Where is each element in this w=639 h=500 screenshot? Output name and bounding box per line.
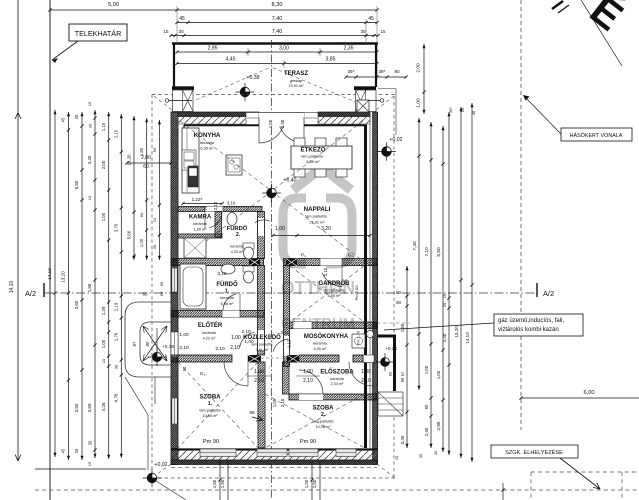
dimension 6,00 to hasokert line — [521, 397, 639, 399]
interior wall kamra right vertical — [215, 212, 222, 238]
roof hip dashed diagonals at corners — [154, 96, 172, 110]
svg-text:10: 10 — [442, 293, 447, 298]
terrace dashed diagonals — [173, 67, 271, 110]
house outer wall left — [171, 112, 178, 465]
svg-text:gáz üzemű,inducíós, fali,: gáz üzemű,inducíós, fali, — [498, 318, 564, 324]
gardrob door gap and arc — [320, 259, 342, 266]
interior wall kozlekedo right vertical H — [284, 266, 290, 367]
svg-text:TERASZ: TERASZ — [284, 71, 308, 77]
svg-text:45: 45 — [74, 114, 79, 119]
svg-text:23,91 m²: 23,91 m² — [289, 84, 305, 88]
svg-text:10: 10 — [87, 195, 92, 200]
bathtub furdo1 — [180, 264, 206, 309]
svg-text:21,31 m²: 21,31 m² — [309, 220, 325, 225]
vertical extension lines above house — [176, 6, 178, 44]
svg-text:2.: 2. — [321, 412, 326, 418]
svg-text:2,95: 2,95 — [207, 46, 217, 52]
top dimension row 2: 45 7,40 45 — [177, 22, 377, 24]
svg-text:GARDRÓB: GARDRÓB — [319, 279, 351, 287]
svg-text:6,00: 6,00 — [584, 390, 595, 396]
svg-text:45: 45 — [179, 16, 185, 22]
top dimension row 6: 39-5 39-5 80 — [346, 76, 406, 78]
svg-text:45: 45 — [74, 448, 79, 453]
house outer wall right: crosshatch outer — [373, 112, 378, 465]
duct blocks flanking corridor opening — [248, 355, 261, 363]
right-top vertical dimension 2,00 / 1,00 — [423, 44, 425, 114]
svg-text:kerámia: kerámia — [313, 342, 327, 346]
svg-text:80: 80 — [394, 69, 400, 74]
eave corner solid line right — [378, 88, 396, 90]
svg-text:3,40: 3,40 — [87, 155, 92, 164]
svg-text:1,50: 1,50 — [312, 479, 317, 488]
interior wall furdo2-furdo1 horizontal thick — [171, 259, 264, 266]
svg-text:kerámia: kerámia — [193, 222, 207, 226]
entry door gap right wall area — [363, 355, 374, 363]
svg-text:+0,02: +0,02 — [154, 462, 167, 468]
rain downpipe left — [165, 99, 169, 103]
svg-text:7,40: 7,40 — [412, 241, 418, 251]
furdo2 door gap in spine — [258, 218, 264, 236]
svg-text:15: 15 — [460, 107, 465, 112]
svg-text:15: 15 — [380, 29, 386, 34]
svg-text:kerámia: kerámia — [202, 331, 216, 335]
kozlekedo-eloter door gap in spine lower — [258, 330, 264, 350]
top dimension row 1: 5,00 / 8,30 — [50, 9, 377, 11]
svg-text:lam.parketta: lam.parketta — [324, 289, 346, 293]
svg-text:1,80: 1,80 — [87, 283, 92, 292]
svg-text:15: 15 — [87, 461, 92, 466]
svg-text:A/2: A/2 — [25, 289, 36, 298]
gaz boiler note box — [494, 314, 583, 336]
svg-text:4,76: 4,76 — [114, 393, 119, 402]
entrance porch outer rounded outline — [125, 302, 172, 377]
shower tray with X — [184, 238, 206, 258]
svg-text:60: 60 — [159, 281, 164, 286]
svg-text:1,60 m²: 1,60 m² — [194, 228, 208, 232]
arrow from szgk box — [560, 458, 600, 489]
interior wall kamra bottom — [178, 234, 222, 238]
left cluster vertical dimension lines — [54, 110, 56, 457]
svg-text:G₁.: G₁. — [348, 253, 354, 258]
kitchen island stove — [226, 155, 242, 175]
svg-text:2.: 2. — [236, 232, 241, 238]
svg-text:2,00: 2,00 — [141, 155, 151, 161]
svg-text:1,00: 1,00 — [231, 335, 241, 341]
svg-text:5,96 m²: 5,96 m² — [221, 302, 235, 306]
svg-text:lam.parketta: lam.parketta — [305, 214, 327, 219]
duct block in wall — [249, 259, 260, 267]
svg-text:4,45: 4,45 — [225, 57, 235, 63]
svg-text:14,10: 14,10 — [9, 281, 15, 294]
slab edge dashed under bottom wall — [171, 466, 377, 468]
door entrance left wall at eloter — [171, 332, 178, 357]
svg-text:87: 87 — [132, 341, 137, 346]
svg-text:1,00: 1,00 — [254, 369, 264, 375]
svg-text:1,70: 1,70 — [114, 332, 119, 341]
svg-text:5,00: 5,00 — [127, 230, 132, 239]
interior wall nappali-gardrob horizontal — [284, 259, 378, 266]
toilet furdo2 — [243, 243, 254, 249]
svg-text:2,40: 2,40 — [424, 427, 429, 436]
szoba1 door arc — [224, 362, 248, 386]
terrace left pillar box — [173, 90, 194, 112]
svg-text:+0,38: +0,38 — [246, 75, 259, 81]
svg-text:13,20: 13,20 — [61, 271, 66, 283]
exterior entry steps — [378, 392, 403, 416]
far-left dimension line 14,10 — [17, 113, 19, 301]
svg-text:Pm 1,70: Pm 1,70 — [357, 331, 361, 345]
svg-text:90: 90 — [424, 404, 429, 409]
leader line from boiler box to mosokonyha — [384, 323, 494, 330]
svg-text:8,35 m²: 8,35 m² — [306, 159, 320, 164]
level marker +0,40 centre — [267, 188, 277, 198]
wall between szoba1 and szoba2 — [258, 362, 265, 448]
svg-text:15: 15 — [163, 29, 169, 34]
svg-text:1.: 1. — [225, 289, 230, 295]
svg-text:1,00: 1,00 — [139, 238, 144, 247]
svg-text:+0,38: +0,38 — [162, 344, 174, 350]
SZGK ELHELYEZESE label box — [491, 445, 578, 458]
svg-text:30: 30 — [88, 123, 93, 128]
svg-text:2,34 m²: 2,34 m² — [331, 382, 345, 386]
svg-text:3,00: 3,00 — [279, 46, 289, 52]
svg-text:95: 95 — [249, 410, 255, 416]
svg-text:87: 87 — [400, 371, 405, 376]
top dimension row 3: 15 30 7,40 30 15 — [171, 35, 378, 37]
toilet furdo1 — [243, 266, 254, 272]
svg-text:2,10: 2,10 — [179, 345, 189, 351]
svg-text:FÜRDŐ: FÜRDŐ — [227, 225, 248, 232]
svg-text:7,40: 7,40 — [272, 29, 283, 35]
svg-text:4,26: 4,26 — [101, 402, 106, 411]
svg-text:1,22⁵: 1,22⁵ — [192, 197, 203, 202]
dining chairs top — [294, 138, 305, 146]
interior wall middle band bottom row — [171, 355, 232, 362]
svg-text:15: 15 — [394, 455, 399, 460]
svg-text:1,50: 1,50 — [212, 479, 217, 488]
svg-text:1,00: 1,00 — [268, 119, 273, 128]
svg-text:+0,02: +0,02 — [389, 137, 402, 143]
hasokert dashed vertical line — [520, 0, 522, 430]
terrace double door opening — [259, 112, 304, 126]
svg-text:1,00: 1,00 — [275, 226, 285, 232]
svg-text:95: 95 — [400, 377, 405, 382]
svg-text:lam.parketta: lam.parketta — [252, 343, 274, 347]
entrance porch inner rounded outline — [140, 322, 172, 365]
svg-text:4,33 m²: 4,33 m² — [231, 250, 245, 254]
svg-text:1.: 1. — [208, 401, 213, 407]
svg-text:3,45: 3,45 — [400, 435, 405, 444]
porch walkway flare lines — [125, 377, 148, 415]
top dimension row 5: 4,45 3,85 — [177, 63, 377, 65]
svg-text:2,10: 2,10 — [323, 267, 328, 276]
svg-text:30: 30 — [178, 29, 184, 34]
terrace door sidelight right — [304, 113, 318, 125]
svg-text:2,10: 2,10 — [280, 398, 285, 407]
house outer wall top: sparse insulation band — [178, 117, 259, 125]
svg-text:P₁.: P₁. — [301, 253, 307, 258]
interior wall vertical spine E — [258, 212, 265, 259]
leader arrow from hasokert box to line — [525, 97, 561, 134]
svg-text:MOSÓKONYHA: MOSÓKONYHA — [304, 332, 349, 340]
svg-text:60: 60 — [152, 147, 157, 152]
dashed roof outline rectangle — [152, 94, 395, 96]
svg-text:ELŐSZOBA: ELŐSZOBA — [320, 369, 354, 376]
svg-text:KONYHA: KONYHA — [194, 132, 221, 139]
boiler mosokonyha — [367, 331, 374, 338]
svg-text:lam.parketta: lam.parketta — [200, 409, 222, 413]
svg-text:30: 30 — [114, 364, 119, 369]
svg-text:1,55: 1,55 — [400, 323, 405, 332]
svg-text:4,22 m²: 4,22 m² — [203, 337, 217, 341]
window bathroom1 left wall — [172, 268, 178, 292]
svg-text:kerámia: kerámia — [200, 140, 215, 145]
svg-text:39⁵: 39⁵ — [378, 69, 385, 74]
svg-text:60: 60 — [139, 212, 144, 217]
big dashed diagonals across open area — [180, 121, 363, 261]
svg-text:1,15: 1,15 — [101, 122, 106, 131]
A/2 label left — [43, 283, 45, 297]
svg-text:10,85 m²: 10,85 m² — [203, 414, 219, 418]
interior wall kamra-furdo2 top — [178, 207, 262, 212]
svg-text:2,00: 2,00 — [416, 63, 422, 73]
svg-text:lam.parketta: lam.parketta — [301, 154, 323, 159]
svg-text:6,30 m²: 6,30 m² — [314, 347, 328, 351]
bottom dashed boundary line — [35, 489, 639, 491]
HASOKERT VONALA label box — [561, 128, 632, 141]
svg-text:75: 75 — [203, 205, 208, 210]
house outer wall bottom: dark outer skin — [171, 460, 377, 465]
svg-text:2,00: 2,00 — [101, 160, 106, 169]
svg-text:1,00: 1,00 — [436, 370, 441, 379]
svg-text:45: 45 — [433, 450, 438, 455]
duct box top right corner — [357, 100, 369, 112]
svg-text:1,50: 1,50 — [304, 479, 309, 488]
svg-text:30: 30 — [88, 440, 93, 445]
svg-text:kerámia: kerámia — [330, 377, 344, 381]
svg-text:3,50: 3,50 — [87, 403, 92, 412]
svg-text:1,00: 1,00 — [303, 369, 313, 375]
kitchen tall appliance — [188, 166, 198, 187]
dining chairs bottom — [294, 169, 305, 177]
svg-text:15: 15 — [87, 101, 92, 106]
kitchen counter along left wall — [182, 128, 199, 193]
svg-text:3,10: 3,10 — [227, 201, 236, 206]
svg-text:2,10: 2,10 — [215, 346, 225, 352]
windows bottom wall szoba1 szoba2 — [200, 449, 236, 457]
house outer wall bottom: sparse band — [171, 451, 377, 461]
watermark Otthon Centrum logo — [283, 167, 352, 264]
svg-text:3,20: 3,20 — [321, 226, 331, 232]
A/2 label right — [536, 283, 538, 297]
svg-text:2,10: 2,10 — [230, 345, 240, 351]
svg-text:3,10: 3,10 — [218, 271, 227, 276]
bottom right parking dashed outline — [531, 471, 639, 473]
svg-text:5,50: 5,50 — [74, 180, 79, 189]
right cluster vertical dimension lines — [406, 266, 408, 448]
svg-text:60: 60 — [396, 290, 401, 295]
interior wall gardrob-mosokonyha — [290, 322, 378, 329]
leader from TELEKHATAR box to boundary — [52, 41, 78, 60]
svg-text:1,00: 1,00 — [179, 332, 189, 338]
section line A/2 dash-dot horizontal — [45, 292, 535, 294]
svg-text:60: 60 — [143, 164, 149, 170]
TELEKHATAR label box — [69, 24, 127, 41]
svg-text:SZOBA: SZOBA — [200, 395, 222, 401]
svg-text:45: 45 — [471, 110, 476, 115]
svg-text:SZGK. ELHELYEZÉSE: SZGK. ELHELYEZÉSE — [505, 449, 563, 456]
svg-text:80: 80 — [388, 371, 393, 376]
entry door arc — [349, 362, 373, 386]
svg-text:kerámia: kerámia — [230, 245, 244, 249]
svg-text:30: 30 — [152, 244, 157, 249]
eloszoba west wall stub — [283, 362, 290, 394]
svg-text:+0,40: +0,40 — [283, 178, 296, 184]
window szoba1 left wall — [172, 398, 178, 424]
svg-text:45: 45 — [368, 16, 374, 22]
svg-text:Pm 90: Pm 90 — [300, 439, 316, 445]
svg-text:30: 30 — [418, 453, 423, 458]
svg-text:2,10: 2,10 — [241, 329, 251, 335]
svg-text:13,20: 13,20 — [127, 154, 132, 166]
property boundary line TELEKHATAR vertical — [49, 0, 51, 500]
ground line bottom left — [35, 468, 146, 470]
svg-text:1,00: 1,00 — [101, 212, 106, 221]
terrace left pillar sill black bar — [172, 86, 194, 90]
svg-text:1,00: 1,00 — [361, 369, 371, 375]
svg-text:greslap: greslap — [290, 79, 302, 83]
terrace right pillar box — [356, 90, 377, 112]
svg-text:60: 60 — [159, 291, 164, 296]
terrace top edge thick line — [172, 42, 378, 45]
svg-text:2,10: 2,10 — [213, 201, 218, 210]
svg-text:2,10: 2,10 — [254, 378, 264, 384]
svg-text:7,10: 7,10 — [424, 247, 430, 257]
terrace right edge thick line — [375, 44, 377, 87]
interior wall furdo1 bottom — [171, 311, 264, 318]
centre axis dash-dot vertical — [271, 40, 273, 500]
svg-text:5,00: 5,00 — [108, 2, 119, 8]
duct block in nappali wall — [286, 259, 297, 267]
svg-text:50: 50 — [182, 366, 187, 371]
svg-text:ELŐTÉR: ELŐTÉR — [198, 321, 223, 329]
dashed diagonals gardrob — [290, 266, 364, 322]
house outer wall bottom: inner face — [171, 448, 377, 450]
svg-text:8,30: 8,30 — [272, 2, 283, 8]
kitchen sink — [182, 150, 196, 170]
dashed roof edge over entry — [377, 322, 410, 324]
svg-text:7,40: 7,40 — [272, 16, 283, 22]
rain downpipe right — [380, 99, 384, 103]
svg-text:13,20: 13,20 — [454, 326, 459, 338]
svg-text:1,00: 1,00 — [244, 339, 254, 345]
svg-text:1,00: 1,00 — [101, 339, 106, 348]
svg-text:KAMRA: KAMRA — [189, 215, 212, 221]
svg-text:7,61 m²: 7,61 m² — [256, 348, 270, 352]
svg-text:2,35: 2,35 — [343, 46, 353, 52]
house outer wall top: inner face thick line — [184, 124, 259, 126]
svg-text:+0,38: +0,38 — [385, 346, 397, 351]
svg-text:1,12⁵: 1,12⁵ — [287, 338, 292, 348]
svg-text:1,39: 1,39 — [101, 306, 106, 315]
washing machine mosokonyha — [352, 334, 365, 348]
svg-text:2,40: 2,40 — [280, 119, 285, 128]
svg-text:lam.parketta: lam.parketta — [313, 420, 335, 424]
mosokonyha door gap in H — [284, 336, 289, 356]
svg-text:60: 60 — [142, 292, 148, 297]
dashed diagonals szoba1 — [178, 362, 258, 448]
svg-text:1,00: 1,00 — [272, 398, 277, 407]
svg-text:10: 10 — [152, 217, 157, 222]
entry porch side wall — [377, 335, 396, 338]
svg-text:3,85: 3,85 — [325, 57, 335, 63]
svg-text:20: 20 — [442, 302, 447, 307]
svg-text:SZOBA: SZOBA — [313, 406, 335, 412]
svg-text:6,39 m²: 6,39 m² — [200, 146, 214, 151]
house outer wall right: inner face — [364, 125, 367, 449]
eloszoba-szoba2 wall — [289, 394, 377, 400]
svg-text:2,15: 2,15 — [114, 129, 119, 138]
svg-text:A/2: A/2 — [543, 289, 554, 298]
svg-text:10: 10 — [101, 358, 106, 363]
svg-text:NAPPALI: NAPPALI — [304, 206, 331, 213]
svg-text:80: 80 — [145, 341, 150, 346]
svg-text:FÜRDŐ: FÜRDŐ — [216, 281, 238, 288]
svg-text:60: 60 — [396, 300, 401, 305]
svg-text:39⁵: 39⁵ — [347, 69, 354, 74]
svg-text:5,95 m²: 5,95 m² — [328, 294, 342, 298]
svg-text:45: 45 — [61, 117, 66, 122]
terrace right pillar sill black bar — [354, 86, 376, 90]
svg-text:2,95: 2,95 — [436, 421, 441, 430]
svg-text:G₁.: G₁. — [200, 371, 206, 376]
svg-text:viztárolós kombi kazán: viztárolós kombi kazán — [498, 327, 559, 333]
svg-text:3,70: 3,70 — [114, 223, 119, 232]
szoba1 door gap — [231, 355, 233, 362]
corridor open passage line — [261, 357, 287, 359]
svg-text:14,10: 14,10 — [47, 268, 52, 280]
svg-text:2,10: 2,10 — [361, 378, 371, 384]
washbasin furdo1 — [221, 264, 235, 274]
svg-text:2,10: 2,10 — [280, 330, 290, 336]
svg-text:1,00: 1,00 — [416, 98, 422, 108]
svg-text:30⁵: 30⁵ — [448, 107, 453, 113]
top dimension row 4: 2,95 3,00 2,35 — [177, 51, 377, 53]
svg-text:2,10: 2,10 — [303, 378, 313, 384]
washbasin furdo2 — [227, 213, 237, 226]
dining table — [291, 146, 352, 169]
svg-text:10,08 m²: 10,08 m² — [316, 425, 332, 429]
svg-text:1,00: 1,00 — [424, 365, 429, 374]
dashed diagonals szoba2 — [265, 394, 365, 448]
svg-text:14,10: 14,10 — [465, 332, 470, 344]
furdo1 door gap and arc — [222, 311, 240, 318]
svg-text:75: 75 — [284, 321, 289, 326]
svg-text:2,19: 2,19 — [114, 302, 119, 311]
house outer wall top: dark outer skin — [178, 112, 259, 117]
svg-text:3,50: 3,50 — [74, 403, 79, 412]
svg-text:Pm 2,00: Pm 2,00 — [354, 285, 359, 301]
svg-text:HÁSÓKERT VONALA: HÁSÓKERT VONALA — [570, 132, 623, 139]
svg-text:45: 45 — [61, 448, 66, 453]
terrace left edge thick line — [173, 44, 175, 87]
porch diagonal measure arrows — [143, 326, 167, 361]
terrace door swing arcs — [258, 117, 260, 143]
svg-text:kerámia: kerámia — [220, 296, 234, 300]
svg-text:5,50: 5,50 — [436, 247, 442, 257]
terrace door sidelight left — [246, 113, 259, 125]
svg-text:2,30: 2,30 — [442, 333, 447, 342]
